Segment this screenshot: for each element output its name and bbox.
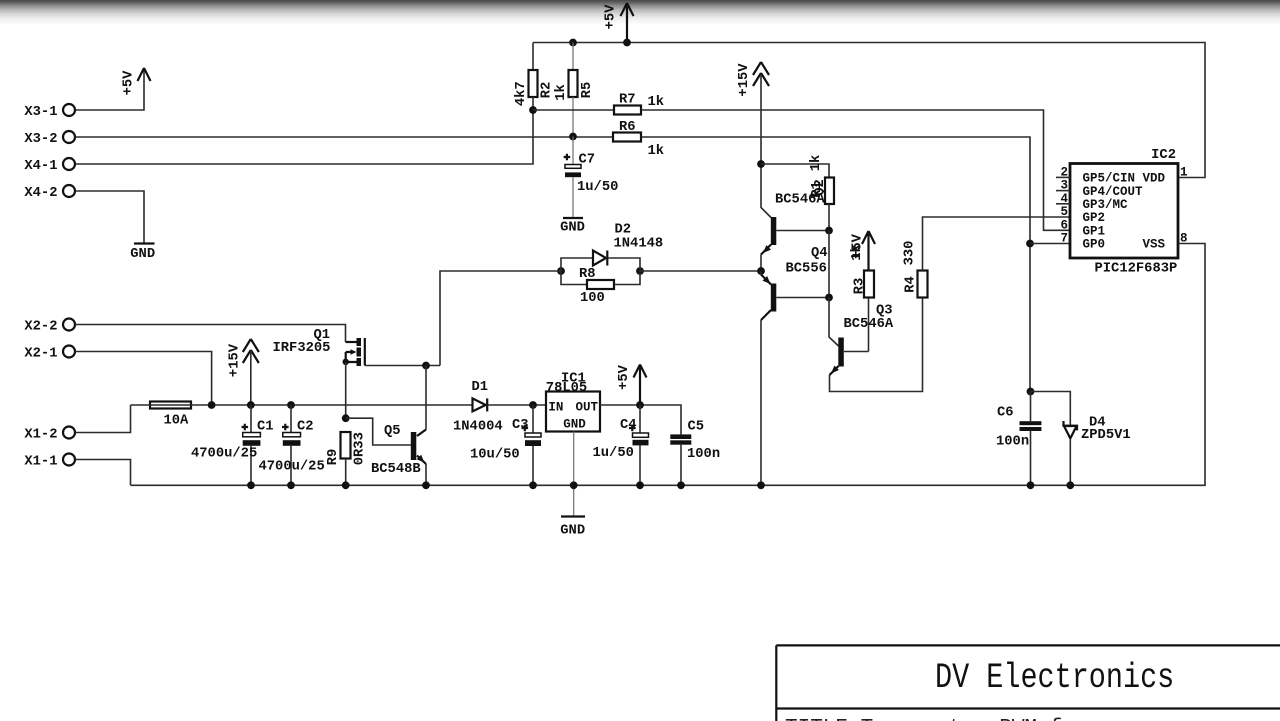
svg-text:100n: 100n bbox=[687, 447, 720, 462]
svg-text:1k: 1k bbox=[808, 155, 824, 172]
svg-text:X1-2: X1-2 bbox=[24, 427, 57, 442]
svg-text:+5V: +5V bbox=[122, 70, 137, 96]
wire R9 bottom to ground rail bbox=[345, 459, 347, 486]
junction dot gate node bbox=[422, 362, 430, 370]
svg-text:4700u/25: 4700u/25 bbox=[259, 459, 325, 475]
connector pad X1-2 bbox=[24, 427, 75, 443]
capacitor C7 bbox=[564, 137, 619, 218]
wire Q5 emitter to ground rail bbox=[425, 464, 427, 485]
fuse F1 10A bbox=[150, 402, 191, 429]
junction dot GP0 tee bbox=[1026, 240, 1034, 248]
svg-text:Q4: Q4 bbox=[811, 246, 828, 261]
junction dot ground rail C1 bbox=[247, 481, 255, 489]
wire D2 cathode to node bbox=[607, 258, 640, 271]
junction dot top rail R5 bbox=[569, 39, 577, 47]
svg-text:78L05: 78L05 bbox=[546, 381, 587, 396]
svg-text:+15V: +15V bbox=[737, 63, 752, 97]
wire +15V to rail bbox=[250, 351, 252, 405]
connector pad X3-1 bbox=[24, 104, 75, 120]
svg-text:1u/50: 1u/50 bbox=[577, 179, 618, 195]
ground GND (X4-2) bbox=[130, 244, 155, 263]
svg-text:330: 330 bbox=[903, 241, 918, 266]
wire Q4 emitter to output node bbox=[760, 271, 762, 275]
transistor Q5 BC548B bbox=[371, 424, 426, 477]
svg-text:X2-1: X2-1 bbox=[24, 346, 57, 361]
resistor R5 bbox=[553, 70, 595, 101]
wire R1 bottom to base node bbox=[828, 204, 830, 231]
junction dot ground rail C4 bbox=[636, 481, 644, 489]
diode D1 1N4004 bbox=[453, 380, 503, 435]
wire X3-2 to R6 bbox=[76, 136, 614, 138]
wire X2-2 to Q1 drain bbox=[76, 325, 346, 343]
junction dot ground rail C2 bbox=[287, 481, 295, 489]
capacitor C1 bbox=[191, 405, 274, 485]
svg-text:BC548B: BC548B bbox=[371, 462, 421, 477]
wire +5V top rail bbox=[533, 43, 1205, 178]
svg-text:GP1: GP1 bbox=[1083, 225, 1106, 239]
transistor Q1 IRF3205 bbox=[273, 328, 365, 366]
title block frame bbox=[776, 645, 1280, 721]
wire R6 to IC2 pin7 node bbox=[641, 137, 1030, 392]
junction dot ground rail R9 bbox=[342, 481, 350, 489]
wire X1-1 to ground rail bbox=[76, 460, 131, 486]
supply +15V arrow (left) bbox=[228, 339, 259, 377]
resistor R4 bbox=[903, 241, 928, 298]
wire R7 to IC2 pin6 bbox=[641, 110, 1070, 230]
svg-text:VDD: VDD bbox=[1143, 172, 1166, 186]
junction dot ground rail C3 bbox=[529, 481, 537, 489]
junction dot ground rail Q4 bbox=[757, 481, 765, 489]
transistor Q3 BC546A bbox=[830, 304, 894, 376]
junction node R5/X3-2/R6/C7 bbox=[569, 133, 577, 141]
svg-text:R7: R7 bbox=[619, 93, 636, 108]
svg-text:1k: 1k bbox=[648, 94, 665, 110]
junction dot C4/+5V bbox=[636, 401, 644, 409]
wire X4-2 to ground bbox=[76, 191, 145, 243]
svg-text:4700u/25: 4700u/25 bbox=[191, 446, 257, 462]
svg-text:X4-2: X4-2 bbox=[24, 186, 57, 201]
svg-text:C7: C7 bbox=[579, 153, 596, 168]
svg-text:10A: 10A bbox=[164, 414, 190, 429]
svg-text:X3-1: X3-1 bbox=[24, 105, 57, 120]
IC IC2 PIC12F683P bbox=[1070, 148, 1178, 277]
junction dot ground rail C5 bbox=[677, 481, 685, 489]
resistor R2 bbox=[513, 70, 555, 106]
svg-text:Q5: Q5 bbox=[384, 424, 401, 439]
capacitor C2 bbox=[259, 405, 325, 485]
svg-text:IRF3205: IRF3205 bbox=[273, 341, 331, 356]
svg-text:R5: R5 bbox=[580, 82, 595, 99]
supply +5V arrow (R3) bbox=[851, 231, 876, 271]
svg-text:PIC12F683P: PIC12F683P bbox=[1095, 262, 1178, 277]
wire R8/D2 node to gate drop bbox=[440, 271, 561, 366]
supply +15V arrow (right) bbox=[737, 62, 769, 97]
supply +5V arrow (left) bbox=[122, 68, 151, 95]
resistor R7 bbox=[614, 93, 664, 115]
svg-text:GP0: GP0 bbox=[1083, 238, 1106, 252]
diode D2 1N4148 bbox=[593, 223, 663, 266]
wire +15V to Q2 collector bbox=[761, 74, 771, 218]
svg-text:GP2: GP2 bbox=[1083, 211, 1106, 225]
wire Q3 emitter to R4 bbox=[830, 298, 923, 392]
wire R8/D2 node to driver output bbox=[640, 270, 761, 272]
svg-text:1u/50: 1u/50 bbox=[593, 445, 634, 461]
capacitor C4 bbox=[593, 405, 649, 485]
svg-text:VSS: VSS bbox=[1143, 238, 1166, 252]
wire supply rail bbox=[131, 404, 473, 406]
junction dot ground rail IC1 bbox=[570, 481, 578, 489]
svg-text:+5V: +5V bbox=[604, 4, 619, 30]
junction dot +15V/R1 tee bbox=[757, 160, 765, 168]
svg-text:R6: R6 bbox=[619, 120, 636, 135]
svg-text:GP4/COUT: GP4/COUT bbox=[1083, 185, 1144, 199]
svg-text:C4: C4 bbox=[620, 418, 637, 433]
svg-text:4: 4 bbox=[1060, 192, 1068, 206]
wire R7 left lead bbox=[533, 109, 614, 111]
svg-text:R8: R8 bbox=[579, 267, 596, 282]
svg-text:C5: C5 bbox=[688, 420, 705, 435]
svg-text:1k: 1k bbox=[648, 143, 665, 159]
wire base rail R1 to Q4 bbox=[828, 231, 830, 298]
svg-text:4k7: 4k7 bbox=[513, 81, 529, 106]
resistor R9 bbox=[326, 432, 368, 465]
svg-text:IN: IN bbox=[548, 401, 563, 415]
transistor Q2 BC546A bbox=[761, 193, 829, 255]
pin 4 stub bbox=[1056, 192, 1070, 206]
svg-text:2: 2 bbox=[1060, 165, 1068, 179]
svg-text:C6: C6 bbox=[997, 406, 1014, 421]
wire R5 top lead bbox=[572, 43, 574, 71]
junction node R2/X4-1/R7 bbox=[529, 106, 537, 114]
svg-text:10u/50: 10u/50 bbox=[470, 447, 520, 463]
svg-text:X3-2: X3-2 bbox=[24, 132, 57, 147]
junction dot ground rail C6 bbox=[1027, 481, 1035, 489]
wire R8 branch bbox=[561, 271, 587, 285]
wire X4-1 riser to R7 node bbox=[76, 110, 534, 164]
capacitor C3 bbox=[470, 405, 541, 485]
svg-text:1: 1 bbox=[1180, 166, 1188, 180]
connector pad X4-1 bbox=[24, 158, 75, 174]
svg-text:0R33: 0R33 bbox=[353, 432, 368, 465]
wire Q1 source to R9 bbox=[345, 362, 347, 418]
junction dot C3 bbox=[529, 401, 537, 409]
connector pad X3-2 bbox=[24, 131, 75, 147]
wire X3-1 to +5V bbox=[76, 70, 145, 110]
svg-text:GND: GND bbox=[560, 524, 585, 539]
svg-text:X4-1: X4-1 bbox=[24, 159, 57, 174]
wire IC1 out bbox=[600, 405, 681, 434]
svg-text:BC546A: BC546A bbox=[775, 193, 825, 208]
svg-text:1N4148: 1N4148 bbox=[614, 237, 664, 252]
svg-text:100n: 100n bbox=[996, 435, 1029, 450]
svg-text:BC556: BC556 bbox=[786, 262, 827, 277]
wire Q5 base bbox=[346, 418, 411, 445]
transistor Q4 BC556 bbox=[761, 246, 829, 320]
wire Q4 collector to ground rail bbox=[760, 320, 762, 485]
node D2/R8 right bbox=[636, 267, 644, 275]
connector pad X2-2 bbox=[24, 319, 75, 335]
svg-text:+5V: +5V bbox=[617, 364, 632, 390]
wire C6 to D4 bbox=[1031, 392, 1071, 426]
svg-text:TITLE:Temperatur PWM fan: TITLE:Temperatur PWM fan bbox=[785, 717, 1087, 721]
svg-text:ZPD5V1: ZPD5V1 bbox=[1081, 428, 1131, 443]
capacitor C5 bbox=[670, 420, 720, 486]
svg-text:DV Electronics: DV Electronics bbox=[935, 659, 1174, 698]
svg-text:D1: D1 bbox=[472, 380, 489, 395]
resistor R6 bbox=[613, 120, 664, 159]
IC IC1 78L05 bbox=[546, 372, 600, 432]
node D2/R8 left bbox=[557, 267, 565, 275]
supply +5V arrow (top) bbox=[604, 3, 634, 43]
wire R1 top lead bbox=[761, 164, 829, 178]
connector pad X1-1 bbox=[24, 454, 75, 470]
svg-text:+5V: +5V bbox=[851, 233, 866, 259]
svg-text:1k: 1k bbox=[553, 84, 569, 101]
svg-text:C2: C2 bbox=[297, 420, 314, 435]
svg-text:5: 5 bbox=[1060, 205, 1068, 219]
wire R8 to node bbox=[614, 271, 640, 285]
junction dot top rail +5V bbox=[623, 39, 631, 47]
junction dot rail X2-1 bbox=[208, 401, 216, 409]
svg-text:R4: R4 bbox=[904, 276, 919, 293]
svg-text:+15V: +15V bbox=[228, 343, 243, 377]
svg-text:X1-1: X1-1 bbox=[24, 454, 57, 469]
svg-text:3: 3 bbox=[1060, 179, 1068, 193]
svg-text:X2-2: X2-2 bbox=[24, 319, 57, 334]
junction dot ground rail D4 bbox=[1066, 481, 1074, 489]
junction dot ground rail Q5 bbox=[422, 481, 430, 489]
svg-text:GP3/MC: GP3/MC bbox=[1083, 198, 1129, 212]
svg-text:6: 6 bbox=[1060, 218, 1068, 232]
junction dot Q2 base bbox=[825, 227, 833, 235]
wire X1-2 to fuse bbox=[76, 405, 131, 433]
connector pad X4-2 bbox=[24, 185, 75, 201]
diode D4 ZPD5V1 zener bbox=[1064, 416, 1131, 486]
wire R4 top to IC2 pin5 bbox=[923, 217, 1071, 271]
svg-text:GND: GND bbox=[130, 247, 155, 262]
svg-text:C1: C1 bbox=[257, 420, 274, 435]
svg-text:100: 100 bbox=[580, 291, 605, 306]
wire IC1 ground bbox=[573, 432, 575, 517]
wire GP0 pin7 bbox=[1030, 243, 1070, 245]
wire Q1 gate bbox=[365, 365, 440, 367]
wire base rail to Q3 collector bbox=[829, 298, 839, 347]
junction dot R9/Q5 base bbox=[342, 414, 350, 422]
junction dot C6/D4 tee bbox=[1027, 388, 1035, 396]
svg-text:GP5/CIN: GP5/CIN bbox=[1083, 172, 1136, 186]
svg-text:GND: GND bbox=[563, 418, 586, 432]
junction dot driver output node bbox=[757, 267, 765, 275]
wire R2 bottom lead bbox=[532, 97, 534, 110]
ground GND (C7) bbox=[560, 218, 585, 236]
pin 3 stub bbox=[1056, 179, 1070, 193]
svg-text:7: 7 bbox=[1060, 232, 1068, 246]
junction dot Q4 base bbox=[825, 294, 833, 302]
wire Q2 emitter to output node bbox=[760, 255, 762, 272]
pin 2 stub bbox=[1056, 165, 1070, 179]
wire R2 top lead bbox=[532, 43, 534, 71]
svg-text:R2: R2 bbox=[540, 82, 555, 99]
wire X2-1 to supply rail bbox=[76, 352, 212, 406]
supply +5V arrow (IC1 out) bbox=[617, 364, 647, 405]
svg-text:D2: D2 bbox=[615, 223, 632, 238]
resistor R1 bbox=[808, 155, 834, 204]
svg-text:R9: R9 bbox=[326, 449, 341, 466]
wire D1 to IC1 bbox=[487, 404, 546, 406]
svg-text:R3: R3 bbox=[853, 278, 868, 295]
svg-text:1N4004: 1N4004 bbox=[453, 420, 503, 435]
wire D2 branch bbox=[561, 258, 593, 271]
svg-text:C3: C3 bbox=[512, 418, 529, 433]
wire Q3 base to R3 bbox=[868, 298, 870, 352]
resistor R3 bbox=[849, 244, 874, 297]
svg-text:OUT: OUT bbox=[576, 401, 599, 415]
junction dot rail +15V/C1 bbox=[247, 401, 255, 409]
wire Q5 collector to gate node bbox=[425, 366, 427, 430]
wire ground rail bbox=[131, 244, 1206, 486]
wire R5 bottom lead bbox=[572, 97, 574, 137]
svg-text:IC2: IC2 bbox=[1151, 148, 1176, 163]
svg-text:GND: GND bbox=[560, 221, 585, 236]
capacitor C6 bbox=[996, 392, 1041, 486]
connector pad X2-1 bbox=[24, 346, 75, 362]
ground GND (IC1) bbox=[560, 517, 585, 539]
junction dot rail C2 bbox=[287, 401, 295, 409]
resistor R8 bbox=[579, 267, 614, 306]
